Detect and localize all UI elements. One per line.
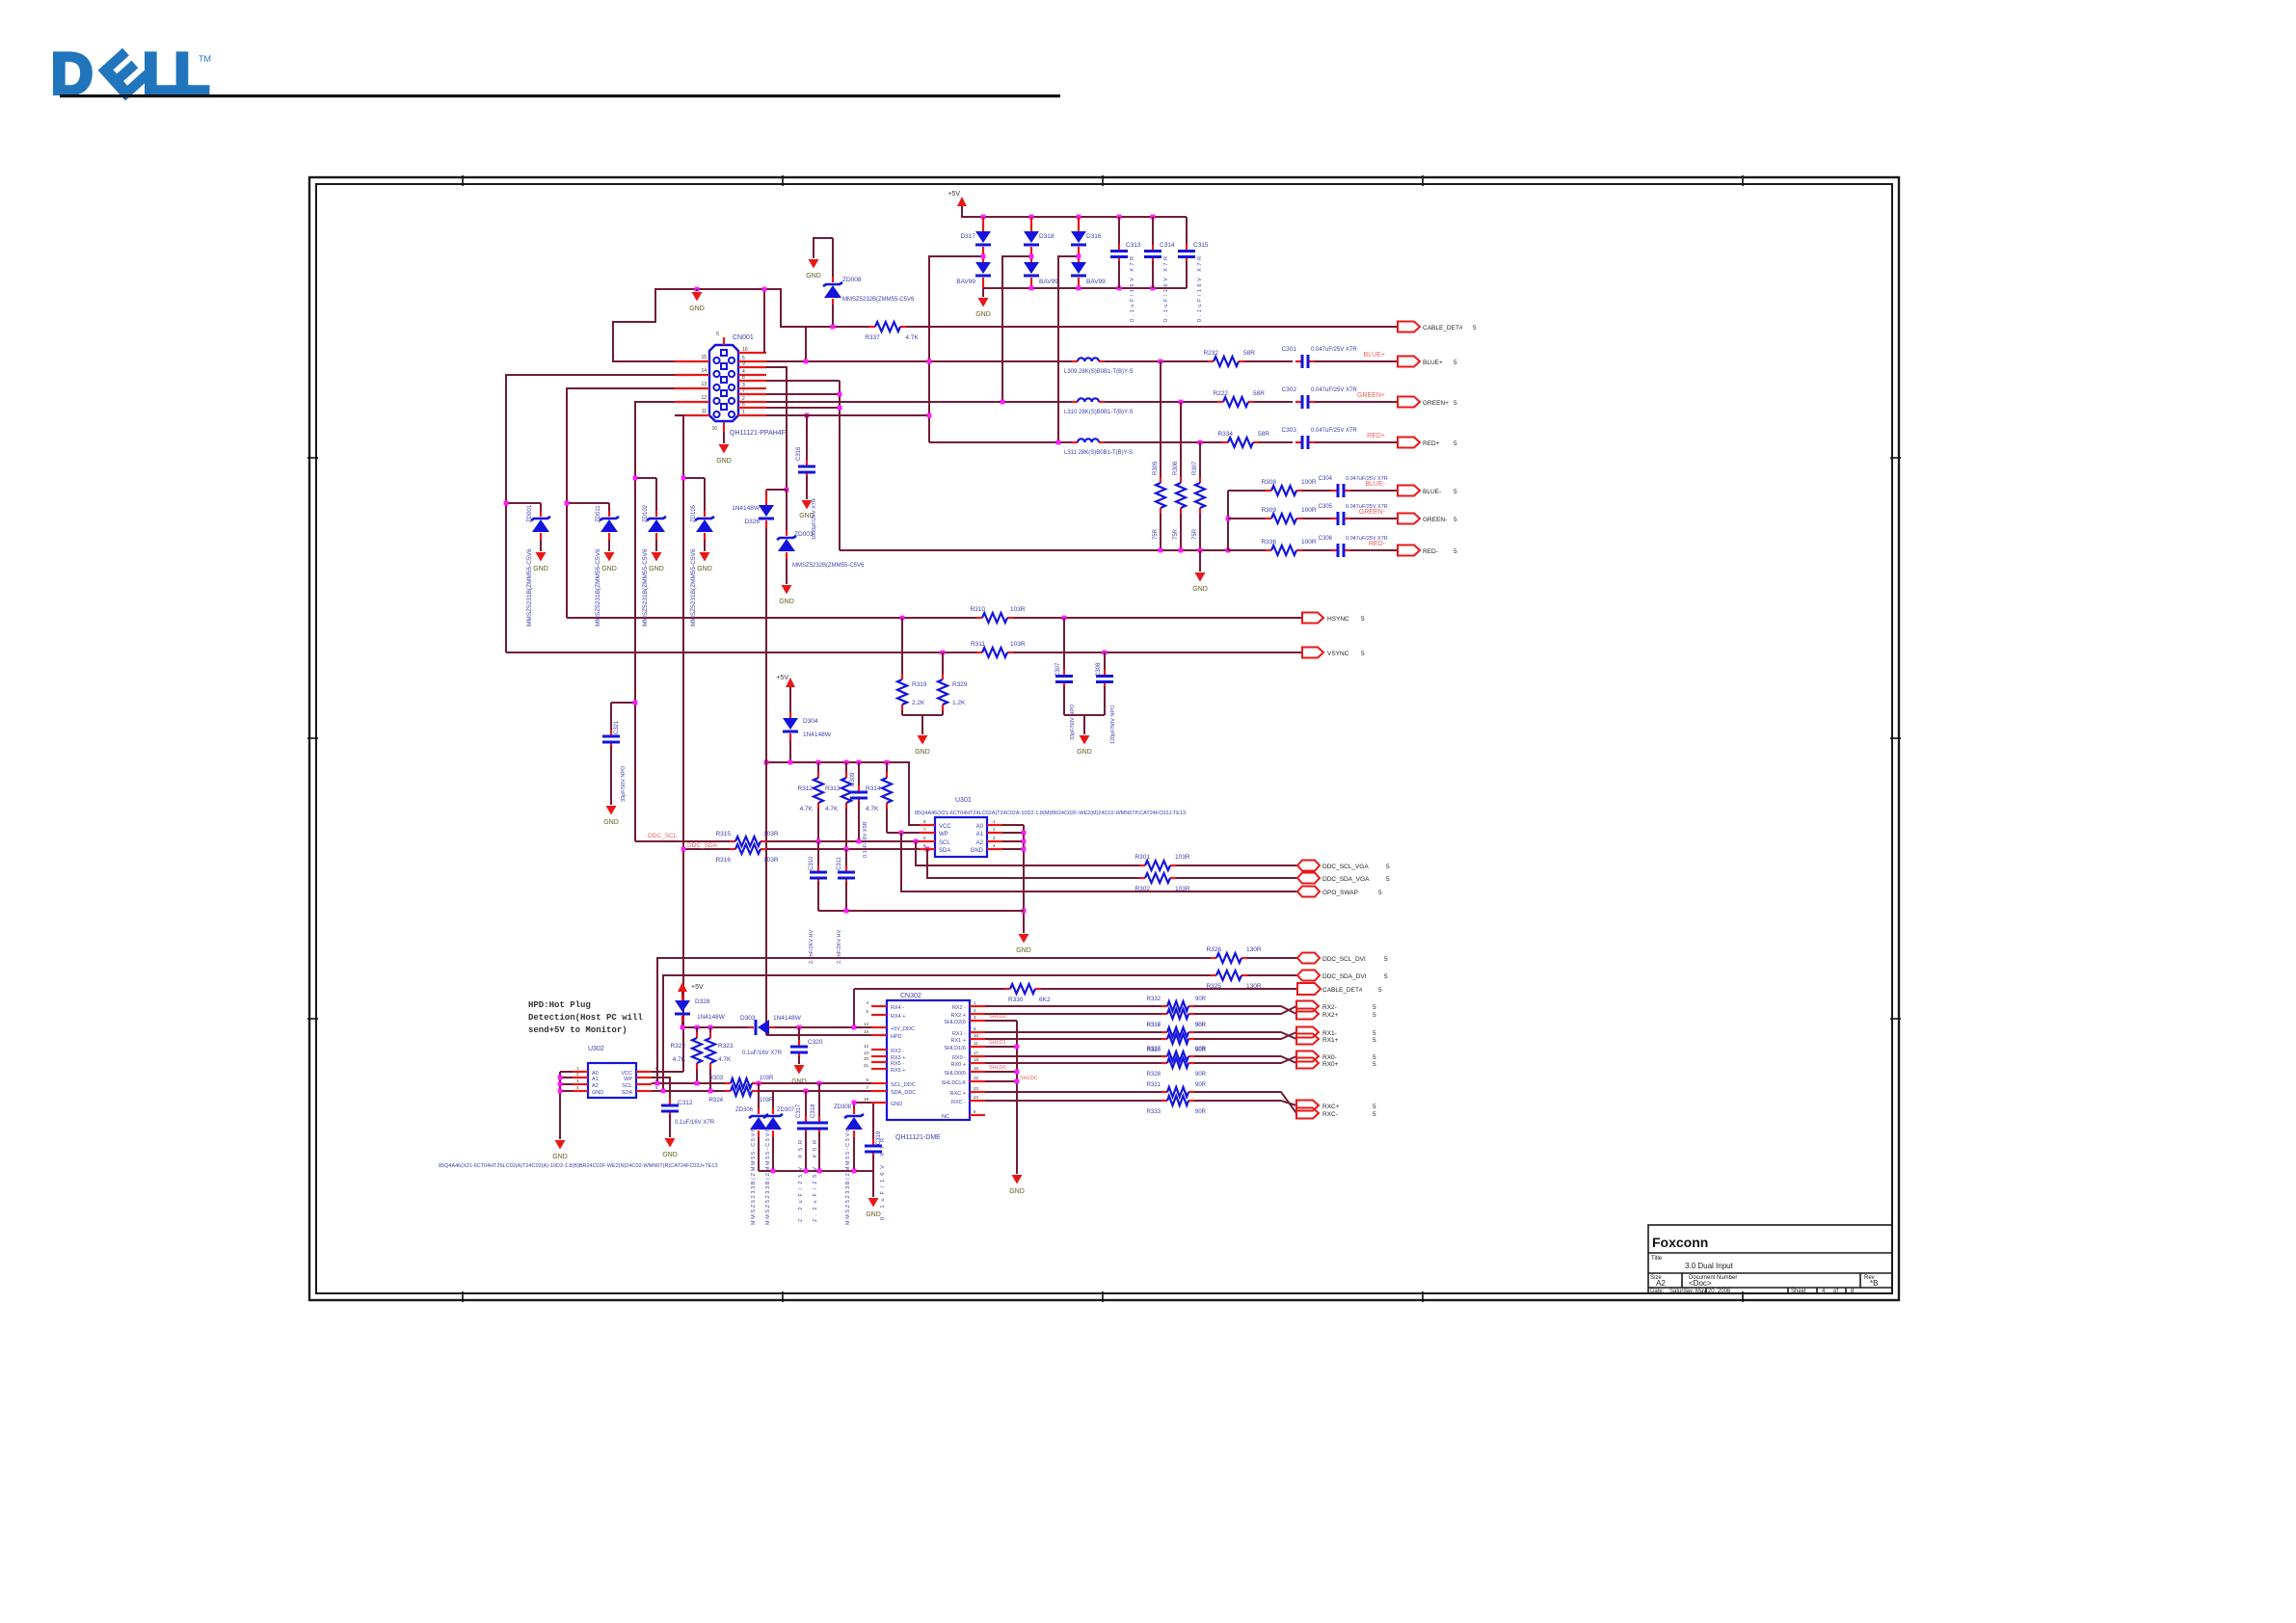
resistor R308 100R	[1261, 479, 1316, 495]
svg-text:R332: R332	[1147, 997, 1161, 1002]
svg-text:90R: 90R	[1195, 1047, 1207, 1052]
junction at ZD003 node	[785, 488, 789, 492]
wire RED- to flag	[1350, 549, 1398, 551]
wire U302 VCC row	[652, 1071, 683, 1073]
junction D316 mid	[1077, 254, 1081, 259]
svg-text:75R: 75R	[1173, 528, 1179, 540]
svg-text:C317: C317	[796, 1104, 802, 1118]
inductor L310	[1064, 398, 1133, 415]
svg-text:WP: WP	[624, 1077, 632, 1082]
svg-text:QH11121-PPAH4F: QH11121-PPAH4F	[730, 430, 786, 437]
svg-text:HPD:Hot Plug: HPD:Hot Plug	[528, 1000, 591, 1010]
wire CABLE_DET riser to +5V rail	[853, 989, 855, 1027]
flag RX2+	[1296, 1009, 1376, 1020]
capacitor C317	[796, 1091, 814, 1222]
svg-text:DDC_SDA_VGA: DDC_SDA_VGA	[1322, 876, 1370, 883]
resistor R306 75R terminator	[1173, 402, 1186, 550]
svg-text:D316: D316	[1086, 233, 1102, 240]
svg-text:GND: GND	[975, 311, 991, 318]
svg-text:R313: R313	[825, 785, 841, 792]
diode D317 (BAV99 dual)	[956, 217, 991, 288]
wire RED+ to flag	[1315, 441, 1398, 443]
svg-text:103R: 103R	[763, 831, 779, 838]
junctions on U301 ground column	[1022, 831, 1027, 914]
resistor R310 103R	[970, 606, 1025, 623]
svg-text:1N4148W: 1N4148W	[803, 732, 832, 738]
wire D326 to VCC rail and HPD row (long riser)	[765, 528, 767, 1035]
svg-text:RX2-: RX2-	[1322, 1004, 1337, 1011]
resistor R305 75R terminator	[1153, 361, 1165, 550]
wire DDC_SDA_DVI net row	[663, 975, 1211, 1091]
svg-text:C315: C315	[1193, 242, 1209, 249]
ground below C307/C308	[1077, 715, 1092, 756]
svg-text:ZD001: ZD001	[527, 504, 533, 522]
junctions on RED+ row	[1056, 440, 1203, 445]
wire GPIO_SWAP row	[901, 833, 1297, 891]
flag RX2-	[1296, 1001, 1376, 1012]
sheet inner border frame	[316, 184, 1892, 1293]
connector CN001 labels	[730, 334, 786, 437]
junctions on diode bottom rail	[1029, 286, 1156, 291]
svg-text:1N4148W: 1N4148W	[697, 1014, 726, 1021]
svg-text:7: 7	[742, 388, 745, 394]
wire D317 mid tap to BLUE+ / RED+ column	[929, 256, 983, 442]
wire pin8 row	[766, 380, 840, 382]
wire D318 mid tap column	[1002, 256, 1031, 402]
zener ZD001	[526, 503, 550, 626]
svg-text:GND: GND	[866, 1211, 881, 1218]
svg-text:RXC +: RXC +	[950, 1091, 966, 1097]
svg-text:DDC_SDA: DDC_SDA	[687, 842, 718, 849]
wire RED+ mid	[1105, 441, 1222, 443]
svg-text:4.7K: 4.7K	[673, 1056, 686, 1063]
capacitor C302 0.047uF	[1281, 386, 1357, 409]
svg-text:GND: GND	[779, 599, 794, 605]
resistor R336 100R	[1261, 539, 1316, 555]
svg-text:2.2K: 2.2K	[912, 700, 925, 706]
zener ZD003	[777, 490, 865, 605]
svg-text:3.0 Dual Input: 3.0 Dual Input	[1685, 1262, 1734, 1270]
svg-text:SDA: SDA	[622, 1090, 633, 1096]
svg-text:R318: R318	[1147, 1023, 1161, 1028]
svg-text:HSYNC: HSYNC	[1327, 616, 1349, 623]
svg-text:Sheet: Sheet	[1791, 1289, 1806, 1294]
svg-text:GND: GND	[533, 566, 548, 572]
wire DDC_SDA_VGA branch	[927, 849, 1141, 878]
svg-text:R222: R222	[1213, 390, 1228, 397]
svg-text:MMSZ5232B(ZMM55-C5V6: MMSZ5232B(ZMM55-C5V6	[792, 563, 865, 569]
border zone tick marks	[307, 175, 1901, 1302]
capacitor C316 1000pF	[796, 413, 817, 540]
resistor R318 90R	[1147, 1023, 1207, 1037]
wire RX0- net row	[985, 1055, 1161, 1057]
flag BLUE-	[1398, 486, 1457, 496]
wire tap to zener ZD105	[683, 477, 705, 479]
wire RXC+ to crossing	[1194, 1092, 1296, 1113]
wire pin7 row	[766, 393, 840, 395]
power symbol +5V (mid)	[776, 675, 795, 690]
svg-text:RX4 +: RX4 +	[891, 1014, 905, 1020]
svg-text:MMSZ5231B(ZMM55-C5V6: MMSZ5231B(ZMM55-C5V6	[690, 548, 697, 626]
capacitor C308 (VSYNC)	[1096, 652, 1116, 744]
svg-text:RX0 +: RX0 +	[951, 1062, 966, 1068]
wire GREEN+ to flag	[1315, 401, 1398, 403]
svg-text:RX5 +: RX5 +	[891, 1068, 905, 1074]
resistor R324 103R (SDA)	[709, 1086, 774, 1104]
ground below U302	[555, 1140, 566, 1150]
junction D317 mid	[981, 254, 986, 259]
svg-text:BAV99: BAV99	[1086, 279, 1106, 285]
zener ZD008	[806, 238, 915, 327]
zener ZD105	[690, 478, 714, 626]
svg-text:4.7K: 4.7K	[825, 806, 839, 812]
wire SHLD2 row	[985, 1020, 1017, 1022]
svg-text:ZD008: ZD008	[842, 277, 862, 283]
resistor R320 90R	[1147, 1034, 1207, 1053]
svg-text:C306: C306	[1319, 536, 1333, 542]
svg-text:1N4148W: 1N4148W	[773, 1015, 802, 1022]
svg-text:10: 10	[974, 1033, 979, 1038]
resistor R334 58R	[1217, 431, 1269, 447]
svg-text:SHLD1: SHLD1	[989, 1040, 1006, 1046]
svg-text:R306: R306	[1173, 461, 1179, 475]
svg-text:11: 11	[702, 409, 707, 414]
wire BLUE+ mid	[1105, 360, 1208, 362]
svg-text:R315: R315	[715, 831, 731, 838]
wire RX1- net row	[985, 1031, 1161, 1033]
wire RX1+ to crossing	[1194, 1032, 1296, 1039]
wire pin9 to D326	[766, 367, 787, 490]
junction ZD008 on CABLE_DET	[831, 325, 836, 330]
svg-text:RX5 -: RX5 -	[891, 1061, 904, 1067]
flag RX0+	[1296, 1058, 1376, 1069]
svg-text:GND: GND	[662, 1152, 678, 1158]
svg-text:BAV99: BAV99	[1039, 279, 1058, 285]
wire RX1+ net row	[985, 1038, 1161, 1040]
wire CABLE_DET net row	[806, 326, 869, 328]
svg-text:13: 13	[701, 382, 707, 387]
svg-text:5: 5	[1386, 864, 1390, 870]
svg-text:GND: GND	[689, 306, 705, 312]
wire pin14 to VSYNC column	[506, 375, 675, 652]
svg-text:5: 5	[1373, 1037, 1376, 1044]
resistor R332 90R	[1147, 997, 1207, 1011]
svg-text:R322: R322	[670, 1043, 685, 1050]
svg-text:19: 19	[864, 1097, 869, 1102]
wire HSYNC net row	[567, 617, 979, 619]
wire DDC_SDA row to U301	[766, 848, 920, 850]
sheet outer border frame	[309, 177, 1899, 1300]
capacitor C314	[1144, 217, 1175, 322]
diode D316 (BAV99 dual)	[1071, 217, 1106, 288]
zener ZD306	[735, 1083, 768, 1225]
wire diode bottom rail	[983, 287, 1187, 289]
wire pin15 loop above connector	[613, 289, 806, 361]
wire DDC_SCL_DVI net row	[657, 958, 1211, 1083]
svg-text:R329: R329	[952, 681, 968, 688]
resistor R330 6K2	[1004, 984, 1051, 1003]
junction C321 tap	[633, 701, 638, 705]
junctions on BLUE+ row	[804, 359, 1163, 364]
svg-text:10: 10	[742, 347, 748, 353]
eeprom U302	[573, 1046, 658, 1098]
svg-text:ZD307: ZD307	[777, 1107, 795, 1113]
svg-text:13: 13	[864, 1051, 869, 1055]
svg-text:0.047uF/25V X7R: 0.047uF/25V X7R	[1311, 428, 1357, 434]
svg-text:22: 22	[974, 1076, 979, 1080]
svg-text:120pF/50V NPO: 120pF/50V NPO	[1110, 705, 1116, 744]
svg-text:L311 28K(S)B0B1-T(B)Y-S: L311 28K(S)B0B1-T(B)Y-S	[1064, 450, 1133, 456]
flag RX0-	[1296, 1051, 1376, 1062]
resistor R311 103R	[971, 641, 1026, 657]
resistor R325 130R	[1206, 971, 1261, 990]
wire RX0- to crossing	[1194, 1056, 1296, 1063]
svg-text:A1: A1	[976, 832, 984, 838]
wire RX0+ to crossing	[1194, 1056, 1296, 1063]
svg-text:5: 5	[1454, 548, 1457, 555]
diode D318 (BAV99 dual)	[1024, 217, 1058, 288]
svg-text:RX2+: RX2+	[1322, 1012, 1339, 1019]
wire SDA_DDC row to CN302	[758, 1090, 871, 1092]
junctions on HSYNC row	[900, 616, 1067, 621]
svg-text:R311: R311	[971, 641, 985, 648]
svg-text:QH11121-DME: QH11121-DME	[895, 1134, 941, 1141]
title block texts	[1650, 1235, 1878, 1294]
svg-text:6: 6	[742, 402, 745, 408]
svg-text:GND: GND	[649, 566, 664, 572]
svg-text:23: 23	[974, 1086, 979, 1091]
header underline	[60, 94, 1060, 97]
svg-text:+5V: +5V	[776, 675, 788, 681]
connector CN302 DVI body	[887, 1000, 970, 1120]
svg-text:GND: GND	[915, 749, 930, 756]
svg-text:18: 18	[974, 1057, 979, 1062]
flag CABLE_DET# (top)	[1398, 322, 1477, 333]
svg-text:0.1uF/16V X5R: 0.1uF/16V X5R	[863, 821, 868, 858]
svg-text:85Q4A46(X21-6CT04HT26LC02(A)T2: 85Q4A46(X21-6CT04HT26LC02(A)T24C02(A)-10…	[439, 1163, 718, 1169]
svg-text:BLUE-: BLUE-	[1365, 481, 1385, 488]
flag BLUE+	[1398, 357, 1457, 367]
capacitor C320 0.1uF	[742, 1027, 823, 1085]
wire VCC pull-up rail	[766, 762, 920, 825]
svg-text:103R: 103R	[760, 1098, 774, 1104]
svg-text:C316: C316	[796, 446, 802, 461]
svg-text:+5V: +5V	[948, 191, 960, 198]
flag GREEN+	[1398, 397, 1457, 408]
svg-text:8: 8	[742, 375, 745, 381]
svg-text:C314: C314	[1160, 242, 1175, 249]
svg-text:33pF/50V NPO: 33pF/50V NPO	[621, 765, 627, 802]
wire tap to zener ZD011	[567, 502, 609, 504]
svg-text:R321: R321	[1147, 1082, 1161, 1088]
flag RXC-	[1296, 1108, 1376, 1119]
resistor R317 90R	[1147, 1009, 1207, 1028]
svg-text:RXC -: RXC -	[951, 1100, 966, 1105]
svg-text:5: 5	[1373, 1104, 1376, 1110]
svg-text:100R: 100R	[1301, 479, 1317, 486]
junctions on SCL_DDC row	[655, 1081, 822, 1086]
svg-text:15: 15	[974, 1066, 979, 1071]
svg-text:58R: 58R	[1243, 350, 1255, 357]
svg-text:VSYNC: VSYNC	[1327, 651, 1349, 657]
svg-text:ZD306: ZD306	[735, 1107, 754, 1113]
ground below U301	[1019, 934, 1029, 944]
svg-text:5: 5	[1373, 1054, 1376, 1061]
svg-text:Saturday, May 20, 2006: Saturday, May 20, 2006	[1669, 1289, 1731, 1294]
svg-text:1: 1	[742, 410, 745, 415]
wire GREEN- to flag	[1350, 518, 1398, 519]
svg-text:100R: 100R	[1301, 507, 1317, 514]
capacitor C319	[865, 1103, 886, 1220]
inductor L311	[1064, 439, 1133, 456]
svg-text:HPD: HPD	[891, 1034, 902, 1040]
svg-text:11: 11	[974, 1041, 978, 1046]
zener ZD102	[642, 478, 666, 626]
junctions on VCC rail	[764, 760, 890, 765]
svg-text:NC: NC	[942, 1114, 949, 1120]
wire RXC- to crossing	[1194, 1101, 1296, 1105]
connector CN001 VGA body	[709, 345, 738, 421]
wire RX2+ net row	[985, 1013, 1161, 1015]
resistor R232 58R	[1203, 350, 1255, 366]
svg-text:Title: Title	[1651, 1256, 1663, 1262]
junction at zener ZD105 tap	[681, 476, 686, 481]
svg-text:R330: R330	[1008, 997, 1024, 1003]
svg-text:RX1 -: RX1 -	[952, 1031, 966, 1037]
svg-text:5: 5	[1378, 890, 1382, 896]
svg-text:Detection(Host PC will: Detection(Host PC will	[528, 1013, 643, 1023]
svg-text:MMSZ5233B(ZMM55-C5V6: MMSZ5233B(ZMM55-C5V6	[845, 1129, 851, 1225]
wire video return column	[1227, 491, 1229, 550]
Dell logo	[51, 40, 211, 109]
wire U301 ground column	[1023, 825, 1025, 933]
svg-text:GREEN-: GREEN-	[1359, 509, 1386, 516]
flag RX1+	[1296, 1034, 1376, 1045]
svg-text:R323: R323	[718, 1043, 734, 1050]
junctions on video ground bus	[1159, 548, 1231, 553]
svg-text:DDC_SCL: DDC_SCL	[648, 833, 678, 839]
connector CN302 left pin stubs	[864, 1000, 887, 1103]
svg-text:R307: R307	[1192, 461, 1198, 475]
svg-text:R301: R301	[1135, 854, 1150, 861]
flag VSYNC	[1302, 648, 1365, 658]
wire R319/R329 ground rail	[902, 714, 943, 716]
svg-text:+5V_DDC: +5V_DDC	[891, 1026, 915, 1032]
svg-text:C313: C313	[1126, 242, 1141, 249]
svg-text:R334: R334	[1217, 431, 1233, 438]
diode D303 1N4148W	[740, 1015, 802, 1035]
wire VSYNC to flag	[1013, 652, 1302, 653]
svg-text:5: 5	[1373, 1004, 1376, 1011]
svg-text:1N4148W: 1N4148W	[732, 505, 761, 512]
svg-text:C318: C318	[811, 1104, 816, 1118]
svg-text:C308: C308	[1096, 662, 1102, 677]
svg-text:CABLE_DET#: CABLE_DET#	[1322, 987, 1363, 994]
svg-text:C312: C312	[678, 1100, 693, 1106]
wire RED+ net row	[929, 441, 1072, 443]
svg-text:L309 28K(S)B0B1-T(B)Y-S: L309 28K(S)B0B1-T(B)Y-S	[1064, 369, 1133, 375]
junctions on HPD rail	[681, 1025, 857, 1030]
svg-text:D317: D317	[960, 233, 975, 240]
wire RX2- net row	[985, 1005, 1161, 1007]
svg-text:58R: 58R	[1253, 390, 1265, 397]
diode D304 1N4148W	[783, 687, 832, 762]
svg-text:RX0+: RX0+	[1322, 1061, 1339, 1068]
wire CABLE_DET to flag	[906, 326, 1398, 328]
wire DDC_SDA_VGA to flag	[1176, 877, 1297, 879]
svg-text:A2: A2	[1656, 1279, 1666, 1288]
svg-text:5: 5	[1386, 876, 1390, 883]
svg-text:15: 15	[701, 355, 707, 360]
wire BLUE- net row	[1228, 490, 1266, 492]
svg-text:90R: 90R	[1195, 1023, 1207, 1028]
wire DDC_SCL_VGA branch	[916, 841, 1141, 865]
wire SDA_DDC row	[652, 1090, 725, 1092]
wire SHLDCLK row	[985, 1080, 1017, 1082]
svg-text:RX3 -: RX3 -	[891, 1049, 904, 1054]
connector CN302 left pin names	[891, 1005, 916, 1107]
svg-text:5: 5	[1373, 1012, 1376, 1019]
resistor R321 90R	[1147, 1082, 1207, 1097]
svg-text:C311: C311	[837, 856, 842, 870]
svg-text:GREEN+: GREEN+	[1423, 400, 1449, 407]
capacitor C306 0.047uF	[1319, 536, 1388, 557]
svg-text:14: 14	[864, 1022, 869, 1026]
wire C310/C311 ground rail	[818, 910, 1024, 912]
junctions on SHLD column	[1015, 1045, 1020, 1084]
svg-text:R232: R232	[1203, 350, 1218, 357]
title block	[1648, 1225, 1892, 1293]
svg-text:C320: C320	[808, 1039, 823, 1046]
connector CN302 right pin names	[942, 1005, 967, 1120]
svg-text:75R: 75R	[1153, 528, 1159, 540]
svg-text:DDC_SDA_DVI: DDC_SDA_DVI	[1322, 973, 1367, 980]
wire DVI clamp ground rail	[759, 1170, 873, 1172]
svg-text:90R: 90R	[1195, 1072, 1207, 1078]
svg-text:Foxconn: Foxconn	[1652, 1235, 1708, 1250]
wire pin13 to HSYNC column	[567, 388, 675, 618]
svg-text:A2: A2	[592, 1083, 599, 1089]
ground below SHLD column	[1012, 1175, 1023, 1184]
svg-text:SHLD0: SHLD0	[989, 1065, 1006, 1071]
svg-text:16: 16	[864, 1029, 869, 1034]
resistor R301 103R	[1135, 854, 1189, 870]
svg-text:SCL: SCL	[939, 840, 950, 846]
wire C307/C308 ground rail	[1064, 714, 1105, 716]
wire BLUE+ to cap	[1244, 360, 1293, 362]
wire SHLD0 row	[985, 1071, 1017, 1073]
resistor R312 4.7K pullup	[797, 762, 823, 841]
svg-text:GND: GND	[1016, 947, 1031, 954]
svg-text:C321: C321	[614, 720, 620, 734]
wire U301 address pins to ground column	[1002, 825, 1024, 849]
wire tap to zener ZD102	[635, 477, 656, 479]
svg-text:GND: GND	[806, 273, 821, 279]
svg-text:C304: C304	[1319, 476, 1333, 482]
wire RX2+ to crossing	[1194, 1006, 1296, 1014]
svg-text:5: 5	[1454, 359, 1457, 366]
svg-text:MMSZ5232B(ZMM55-C5V6: MMSZ5232B(ZMM55-C5V6	[842, 297, 915, 303]
svg-text:12: 12	[864, 1044, 869, 1049]
svg-text:103R: 103R	[760, 1076, 774, 1081]
wire RED- net row	[1228, 549, 1266, 551]
svg-text:SCL: SCL	[622, 1083, 632, 1089]
svg-text:SHLDCLK: SHLDCLK	[942, 1080, 967, 1086]
svg-text:RXC-: RXC-	[1322, 1111, 1338, 1118]
capacitor C307 (HSYNC)	[1055, 618, 1076, 740]
svg-text:103R: 103R	[1175, 854, 1190, 861]
capacitor C303 0.047uF	[1281, 427, 1357, 449]
